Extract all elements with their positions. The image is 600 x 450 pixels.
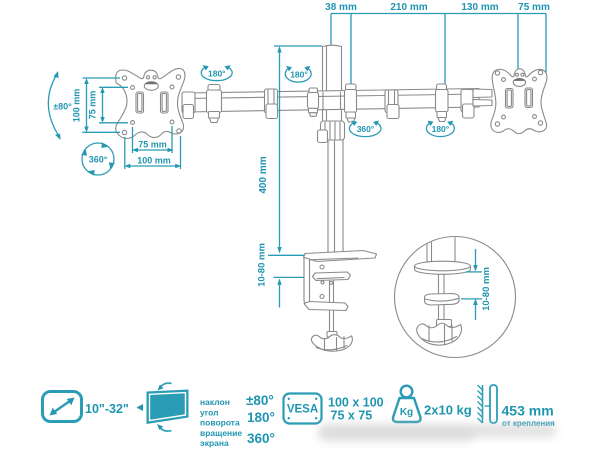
svg-text:10"-32": 10"-32" bbox=[85, 402, 129, 416]
svg-text:75 mm: 75 mm bbox=[518, 2, 550, 13]
pole upper highlight bbox=[326, 46, 328, 121]
dim h100 extensions bbox=[124, 137, 126, 169]
ring F latch bbox=[463, 104, 475, 118]
dim h100 line bbox=[127, 165, 180, 167]
svg-text:2x10 kg: 2x10 kg bbox=[424, 403, 472, 418]
dim h75 extensions bbox=[132, 127, 134, 153]
tick joint1 bbox=[350, 14, 352, 87]
svg-text:10-80 mm: 10-80 mm bbox=[257, 243, 268, 287]
svg-text:453 mm: 453 mm bbox=[502, 403, 554, 419]
inset circle bbox=[395, 237, 516, 358]
left plate mouth slot bbox=[144, 82, 158, 91]
right connector strip lower bbox=[473, 100, 492, 107]
ring B bbox=[265, 89, 278, 113]
left connector ring bbox=[182, 92, 195, 113]
desk plate bbox=[304, 251, 377, 262]
svg-text:вращение: вращение bbox=[200, 428, 242, 438]
ring D latch bbox=[387, 105, 399, 119]
inset top disc bbox=[415, 261, 471, 274]
clamp E bolt bbox=[437, 112, 447, 118]
svg-text:180°: 180° bbox=[432, 124, 450, 134]
dim v75 extensions bbox=[99, 86, 128, 88]
svg-text:100 x 100: 100 x 100 bbox=[328, 396, 384, 410]
clamp A knob bbox=[210, 118, 219, 123]
grey blur watermark right bbox=[472, 424, 556, 437]
height icon hatched bar bbox=[482, 385, 484, 423]
svg-text:±80°: ±80° bbox=[246, 393, 274, 408]
left plate inner holes bbox=[131, 86, 135, 90]
clamp bracket wall bbox=[304, 258, 310, 304]
screw rod bbox=[330, 281, 334, 332]
svg-text:угол: угол bbox=[200, 407, 219, 417]
svg-text:10-80 mm: 10-80 mm bbox=[481, 267, 492, 311]
clamp C cap bbox=[346, 84, 357, 90]
tick joint2 bbox=[444, 14, 446, 86]
svg-text:360°: 360° bbox=[247, 431, 275, 446]
pole upper bbox=[323, 45, 342, 121]
svg-text:38 mm: 38 mm bbox=[325, 2, 357, 13]
ring D bbox=[385, 90, 398, 113]
svg-text:наклон: наклон bbox=[200, 397, 230, 407]
dim v75 line bbox=[102, 89, 104, 121]
desk plate front edge bbox=[310, 258, 358, 260]
inset rod collar bbox=[437, 320, 452, 327]
pole lower bbox=[328, 140, 343, 254]
dim 400mm extension top bbox=[274, 45, 322, 47]
right connector strip upper bbox=[473, 89, 492, 98]
clamp P knob bbox=[310, 113, 318, 117]
inset dim lower line bbox=[475, 304, 477, 320]
tick plate left bbox=[517, 14, 519, 69]
clamp C knob bbox=[347, 118, 355, 122]
right plate mouth slot bbox=[513, 78, 525, 86]
bracket bottom arm bbox=[304, 302, 348, 311]
svg-text:75 x 75: 75 x 75 bbox=[331, 409, 373, 423]
clamp pad bbox=[313, 272, 351, 281]
svg-text:75 mm: 75 mm bbox=[138, 140, 167, 150]
svg-text:100 mm: 100 mm bbox=[72, 89, 82, 123]
inset dim extension upper bbox=[466, 271, 482, 273]
svg-text:75 mm: 75 mm bbox=[88, 91, 98, 120]
inset dim upper line bbox=[475, 249, 477, 266]
arm sleeve at pole bbox=[323, 92, 341, 110]
dim 10-80 arrow up bbox=[277, 278, 281, 285]
clamp P cap bbox=[309, 88, 318, 93]
tick plate right bbox=[545, 14, 547, 73]
dim v100 extensions bbox=[83, 77, 121, 79]
svg-text:180°: 180° bbox=[247, 410, 275, 425]
svg-text:экрана: экрана bbox=[200, 438, 229, 448]
kettlebell handle bbox=[401, 386, 413, 398]
icon diagonal arrow bbox=[52, 400, 72, 414]
rod collar bbox=[327, 332, 337, 338]
svg-text:поворота: поворота bbox=[200, 418, 240, 428]
arm tube bbox=[186, 89, 479, 113]
clamp E knob bbox=[438, 118, 446, 122]
arm tube highlight line bbox=[186, 94, 479, 99]
right plate slot left bbox=[506, 89, 514, 109]
pad bolts bbox=[321, 281, 324, 284]
left plate slot left bbox=[136, 92, 144, 113]
svg-text:±80°: ±80° bbox=[53, 102, 72, 112]
screen arrow bottom bbox=[159, 426, 172, 431]
clamp C bolt bbox=[346, 112, 356, 118]
dim v100 line bbox=[86, 80, 88, 131]
svg-text:400 mm: 400 mm bbox=[258, 156, 269, 193]
dim 400mm line bbox=[279, 48, 281, 252]
inset pole bbox=[427, 230, 455, 263]
arc 360 arm bbox=[349, 122, 381, 137]
dim 400mm extension bottom bbox=[268, 254, 305, 256]
kettlebell body bbox=[393, 398, 421, 422]
grey blur watermark left bbox=[318, 424, 476, 441]
right VESA plate outline bbox=[491, 69, 547, 134]
svg-text:360°: 360° bbox=[357, 124, 375, 134]
clamp A bolt bbox=[209, 112, 220, 119]
clamp P body bbox=[308, 93, 319, 109]
left plate eye holes bbox=[146, 76, 149, 79]
screen icon inner border bbox=[150, 393, 186, 421]
svg-text:Kg: Kg bbox=[400, 407, 413, 418]
arc 180 arm bbox=[426, 122, 454, 136]
right plate inner holes bbox=[502, 78, 506, 82]
left connector latch bbox=[183, 105, 194, 119]
clamp C body bbox=[345, 90, 357, 113]
svg-text:180°: 180° bbox=[208, 69, 226, 79]
ring B latch bbox=[266, 104, 278, 119]
arc plus-minus 80 bbox=[48, 74, 59, 137]
arc 180 left plate bbox=[201, 67, 232, 81]
pole collar bbox=[321, 121, 345, 140]
top dimension chain line bbox=[331, 13, 546, 15]
svg-text:360°: 360° bbox=[89, 155, 108, 165]
right plate outer holes bbox=[495, 71, 499, 75]
screen arrow top bbox=[159, 383, 172, 388]
inset rod bbox=[439, 275, 445, 324]
bracket hole lower bbox=[320, 295, 324, 299]
clamp A body bbox=[207, 90, 222, 113]
inset pad bbox=[425, 294, 460, 306]
collar latch bbox=[318, 130, 328, 143]
clamp P bolt bbox=[309, 108, 318, 113]
right plate slot right bbox=[525, 88, 533, 108]
left plate outer holes bbox=[122, 76, 126, 80]
inset dim extension lower bbox=[461, 298, 482, 300]
clamp E cap bbox=[437, 84, 447, 90]
svg-text:130 mm: 130 mm bbox=[461, 2, 498, 13]
screen icon fill bbox=[147, 390, 189, 425]
svg-text:210 mm: 210 mm bbox=[390, 2, 427, 13]
small left arrow bbox=[137, 404, 144, 411]
VESA badge bbox=[284, 394, 322, 424]
star knob bbox=[311, 335, 352, 351]
tick pole center bbox=[330, 14, 332, 46]
svg-text:100 mm: 100 mm bbox=[137, 156, 171, 166]
icon screen-size box bbox=[43, 392, 82, 422]
svg-text:180°: 180° bbox=[290, 69, 308, 79]
dim 10-80 extension bbox=[274, 276, 305, 278]
height icon tick bbox=[485, 405, 490, 407]
dim h75 line bbox=[134, 149, 172, 151]
svg-text:VESA: VESA bbox=[287, 404, 318, 416]
circle 360 left bbox=[82, 143, 114, 175]
left plate slot right bbox=[161, 92, 169, 113]
arc 180 pole bbox=[285, 68, 311, 83]
clamp E body bbox=[436, 90, 449, 113]
clamp A cap bbox=[208, 85, 220, 92]
ring F bbox=[461, 90, 473, 113]
left VESA plate outline bbox=[116, 69, 185, 139]
right plate eye holes bbox=[516, 73, 519, 76]
height icon bar bbox=[490, 385, 497, 423]
bracket hole upper bbox=[320, 265, 324, 269]
inset star knob bbox=[417, 323, 462, 345]
